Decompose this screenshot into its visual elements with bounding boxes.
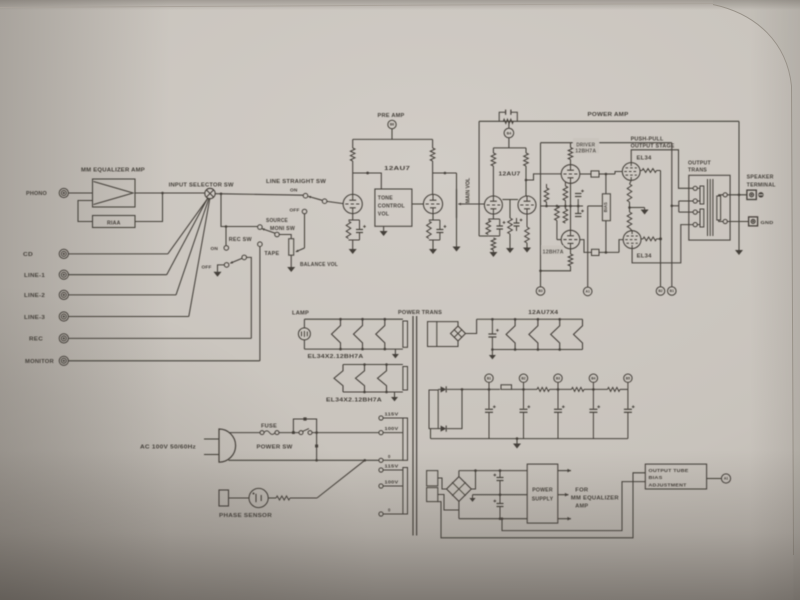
capacitor filter C1 <box>488 389 490 408</box>
node coupling junction <box>366 172 369 175</box>
wire pre amp B+ rail <box>353 138 433 140</box>
capacitor bias Ca <box>577 199 579 206</box>
wire to EL34 lower grid <box>619 240 623 253</box>
svg-text:B6: B6 <box>390 123 394 127</box>
tube V3a 12BH7A <box>561 165 580 184</box>
svg-text:B3: B3 <box>556 376 560 380</box>
wire MONITOR line <box>68 360 260 362</box>
svg-text:LINE-3: LINE-3 <box>24 315 45 321</box>
terminal tap 100V a <box>379 431 383 435</box>
svg-text:REC: REC <box>29 337 43 343</box>
svg-text:DRIVER: DRIVER <box>576 142 595 148</box>
wire rec sw off to ground <box>218 265 225 272</box>
winding heater dc b <box>529 319 538 349</box>
wire B4 to rail <box>508 137 510 148</box>
node row2 taps <box>363 363 366 366</box>
input jack CD <box>59 249 68 258</box>
wire main vol feed down <box>456 173 458 189</box>
resistor R plate V2b <box>524 153 529 166</box>
wire driver bottom B+ return <box>541 266 571 271</box>
input jack LINE-2 <box>59 290 68 299</box>
svg-text:TONE: TONE <box>378 196 393 202</box>
resistor R plate V1a <box>350 148 355 161</box>
wire A1 riser <box>587 206 589 287</box>
svg-text:MAIN VOL: MAIN VOL <box>466 177 472 203</box>
node after switch <box>315 431 318 434</box>
input jack LINE-1 <box>59 270 68 279</box>
winding heater row2 a <box>334 365 343 393</box>
node center tap junction <box>671 205 674 208</box>
node lv right <box>474 469 477 472</box>
wire PHONO to equalizer <box>68 192 92 194</box>
wire rail b2 segment <box>512 388 538 390</box>
resistor R plate V1b <box>430 148 435 161</box>
wire equalizer to selector <box>135 192 205 194</box>
svg-text:TERMINAL: TERMINAL <box>747 183 776 189</box>
capacitor V2b grid <box>516 218 518 223</box>
svg-text:VOL: VOL <box>378 212 390 218</box>
terminal primary 4 <box>693 223 697 227</box>
wire LINE-2 line <box>68 294 176 296</box>
wire heater row1 bottom rail <box>304 348 403 350</box>
resistor bias Rd <box>563 209 568 223</box>
wire driver B+ rail <box>541 142 672 144</box>
ground (grid leak) <box>506 248 514 253</box>
node selector branch <box>220 193 223 196</box>
wire V2b plate <box>525 166 527 196</box>
wire heater row2 top rail <box>343 364 403 366</box>
tube V3b 12BH7A <box>561 230 580 249</box>
wire secondary bottom <box>719 220 723 222</box>
node rec sw branch <box>225 225 228 228</box>
supply terminal B5 (psu) <box>624 374 632 382</box>
resistor rail R b3-b4 <box>572 387 585 391</box>
wire lv bridge top <box>458 471 460 477</box>
svg-text:EL34: EL34 <box>637 155 652 161</box>
wire center taps <box>672 205 679 207</box>
wire V5 plate to transformer <box>632 225 693 263</box>
wire NFB vertical <box>478 121 480 236</box>
node bias tap upper <box>605 173 608 176</box>
page top edge <box>0 4 713 8</box>
svg-text:SOURCE: SOURCE <box>266 218 288 224</box>
ground (V2b cathode) <box>523 248 531 253</box>
resistor screen upper <box>640 170 642 172</box>
wire B3 riser <box>540 143 542 287</box>
ground (heater dc) <box>489 355 496 359</box>
wire secondary top <box>719 195 723 196</box>
resistor R plate V3b <box>568 254 573 266</box>
ground (V1a cathode) <box>349 249 357 254</box>
resistor phase sensor <box>276 496 290 500</box>
wire to gnd terminal <box>727 221 748 223</box>
terminal secondary top <box>723 193 727 197</box>
wire switch to 100V tap <box>312 432 379 434</box>
wire lv bridge bottom <box>458 501 460 518</box>
wire fan LINE-2 <box>176 199 209 295</box>
tube V5 EL34 <box>623 231 641 249</box>
winding heater dc d <box>574 319 583 349</box>
winding block primary 2 <box>403 468 408 515</box>
terminal secondary bottom <box>723 219 727 223</box>
svg-text:CONTROL: CONTROL <box>378 204 406 210</box>
wire resistor to line <box>290 497 317 499</box>
wire hv rail segment 1 <box>447 388 500 390</box>
block phase sensor pickup <box>219 490 229 506</box>
svg-text:TAPE: TAPE <box>264 251 280 257</box>
svg-text:B2: B2 <box>658 289 662 293</box>
capacitor V2a cathode <box>499 219 501 226</box>
supply terminal B4 <box>504 128 514 138</box>
ground (lv mid) <box>469 498 475 502</box>
resistor screen lower <box>641 238 643 240</box>
tube V4 EL34 <box>622 163 640 181</box>
supply terminal B1 (psu) <box>485 374 493 382</box>
terminal primary 1 <box>693 186 697 190</box>
wire to EL34 upper grid <box>615 172 622 175</box>
resistor NFB <box>503 119 513 123</box>
terminal tap 100V b <box>379 484 383 488</box>
wire lv mid rail <box>473 494 528 496</box>
wire NFB to cathode <box>479 235 488 237</box>
svg-text:OUTPUT: OUTPUT <box>688 160 711 166</box>
svg-text:12AU7: 12AU7 <box>384 166 410 172</box>
node neutral junction <box>315 459 318 462</box>
transformer core <box>707 179 709 236</box>
tube V2b 12AU7 phase inverter <box>518 196 536 214</box>
svg-text:ON: ON <box>211 246 219 252</box>
terminal tap 115V b <box>379 468 383 472</box>
ground (main vol) <box>453 247 461 252</box>
wire V3b plate <box>570 249 572 254</box>
block RIAA <box>93 216 136 228</box>
svg-text:FUSE: FUSE <box>261 424 278 430</box>
svg-text:INPUT SELECTOR SW: INPUT SELECTOR SW <box>169 182 234 188</box>
wire EL34 cathode chain <box>630 180 632 184</box>
wire line capacitor leg <box>316 433 318 461</box>
wire V1a cathode <box>352 214 354 220</box>
wire heater row2 bottom rail <box>343 391 403 393</box>
ground (V2a cathode) <box>489 252 497 257</box>
wire rail b5 segment <box>620 388 628 390</box>
resistor V2b cathode <box>525 227 530 243</box>
svg-text:B3: B3 <box>538 289 542 293</box>
svg-text:115V: 115V <box>385 412 399 417</box>
resistor V5 cathode <box>627 212 632 228</box>
ground (EL34 cathodes) <box>641 210 649 215</box>
wire V2a plate <box>492 166 494 196</box>
winding block row2 <box>403 367 408 391</box>
wire fan CD <box>168 198 208 254</box>
svg-text:LAMP: LAMP <box>292 311 309 317</box>
diode D1 <box>438 388 440 390</box>
label DRIVER 12BH7A <box>573 138 599 154</box>
supply terminal A1 (power amp) <box>583 287 592 296</box>
terminal primary 3 <box>693 210 697 214</box>
ground (heater row2) <box>391 397 398 401</box>
wire heater dc bottom rail <box>492 349 582 351</box>
wire NFB top line <box>479 120 739 122</box>
wire V1a plate <box>352 161 354 195</box>
input jack PHONO <box>59 188 68 197</box>
svg-text:MM EQUALIZER AMP: MM EQUALIZER AMP <box>81 168 145 174</box>
wire rail to R2 <box>432 139 434 148</box>
svg-text:B4: B4 <box>507 131 512 135</box>
resistor bias Rc <box>564 182 566 186</box>
block TONE CONTROL VOL <box>375 189 412 226</box>
wire lamp stubs <box>303 319 305 328</box>
wire cathode to ground <box>630 207 645 209</box>
rotary switch INPUT SELECTOR SW <box>205 188 215 198</box>
node plate junction <box>525 179 528 182</box>
svg-text:TRANS: TRANS <box>688 168 707 174</box>
wire CD line <box>68 253 167 255</box>
coupling capacitor upper <box>580 173 591 175</box>
wire ground stub <box>516 439 518 444</box>
svg-text:PHONO: PHONO <box>26 191 47 197</box>
capacitor bias Cb <box>577 206 579 213</box>
potentiometer MAIN VOL <box>456 189 458 218</box>
winding heater row1 c <box>376 319 385 349</box>
winding heater row2 b <box>356 365 365 393</box>
page edge shading right <box>713 0 800 600</box>
svg-text:B5: B5 <box>626 376 630 380</box>
terminal speaker GND <box>749 217 758 226</box>
resistor R plate V2a <box>491 153 496 166</box>
wire B1 riser <box>671 143 673 287</box>
svg-text:B1: B1 <box>487 376 491 380</box>
ground (V1b cathode) <box>429 249 437 254</box>
svg-text:BIAS: BIAS <box>603 202 608 212</box>
potentiometer BIAS <box>605 174 607 194</box>
wire LINE-3 line <box>68 316 188 318</box>
node switch junction <box>292 431 295 434</box>
ground (balance vol) <box>287 267 295 272</box>
wire heater row1 top rail <box>304 318 403 320</box>
wire rail b4 segment <box>584 388 608 390</box>
block POWER SUPPLY <box>527 464 558 523</box>
resistor rail R b4-b5 <box>608 387 621 391</box>
svg-text:EL34X2.12BH7A: EL34X2.12BH7A <box>308 354 364 360</box>
wire cathode mid <box>629 202 631 212</box>
svg-text:12AU7: 12AU7 <box>499 172 521 178</box>
wire V1b plate <box>432 161 434 195</box>
wire rail to R5 <box>570 143 572 148</box>
capacitor filter C5 <box>627 389 629 408</box>
diode D2 <box>438 428 440 430</box>
wire lv top rail <box>459 470 527 472</box>
node bias feed tap <box>501 517 504 520</box>
wire branch to rec sw on <box>225 227 227 246</box>
svg-text:B4: B4 <box>591 376 595 380</box>
wire V4 plate to transformer <box>631 150 693 189</box>
winding block LV1 <box>427 471 438 486</box>
supply terminal B2 <box>656 287 665 296</box>
winding block primary 1 <box>403 418 408 460</box>
wiper arrow balance vol <box>296 248 305 252</box>
ground (tone control) <box>380 231 388 236</box>
node NFB takeoff <box>738 194 741 197</box>
svg-text:12BH7A: 12BH7A <box>543 249 564 255</box>
wire bridge to rail <box>466 319 477 333</box>
node main vol feed <box>444 172 447 175</box>
supply terminal A1 (psu) <box>721 474 730 483</box>
svg-text:POWER TRANS: POWER TRANS <box>398 310 442 316</box>
arrow output 3 <box>558 518 571 520</box>
supply terminal B3 (psu) <box>554 374 562 382</box>
wire RIAA feedback right <box>135 193 163 222</box>
winding heater row1 b <box>354 319 363 349</box>
wire rail to R1 <box>352 139 354 148</box>
block OUTPUT TUBE BIAS ADJUSTMENT <box>645 464 706 489</box>
wire line straight sw to tube <box>327 201 343 203</box>
svg-text:POWER AMP: POWER AMP <box>588 112 629 118</box>
winding block heater dc <box>428 322 437 347</box>
wire to ground <box>492 250 494 252</box>
svg-text:OUTPUT STAGE: OUTPUT STAGE <box>631 144 675 150</box>
resistor V4 cathode <box>627 184 632 202</box>
winding heater dc a <box>506 319 515 349</box>
svg-text:REC SW: REC SW <box>229 237 252 243</box>
wire balance pot to ground <box>290 255 292 267</box>
resistor V2a cathode lower <box>491 238 496 250</box>
wire driver cathodes link <box>570 183 572 230</box>
svg-text:SPEAKER: SPEAKER <box>747 175 774 181</box>
ground (speaker return) <box>735 250 743 255</box>
supply terminal B3 <box>536 287 545 296</box>
node phase sensor tap <box>364 459 367 462</box>
wire sensor to resistor <box>268 497 276 499</box>
wire row1 ground stub <box>394 349 396 354</box>
wire V3b grid <box>557 239 561 241</box>
wire screen bus <box>660 171 662 287</box>
svg-text:PUSH-PULL: PUSH-PULL <box>631 137 664 143</box>
winding heater row1 a <box>332 319 341 349</box>
wire ac hot <box>229 432 261 434</box>
node d2 junction <box>461 388 464 391</box>
wire NFB line to B4 <box>508 121 510 128</box>
resistor bias Rb <box>555 206 560 221</box>
tube V2a 12AU7 pre driver <box>484 196 502 214</box>
svg-text:EL34: EL34 <box>637 254 652 260</box>
svg-text:B1: B1 <box>670 289 674 293</box>
wire moni sw to balance pot <box>279 235 291 239</box>
potentiometer BALANCE VOL <box>289 239 294 256</box>
winding block row1 <box>403 321 408 347</box>
tube V1a 12AU7 <box>343 194 362 213</box>
capacitor filter C2 <box>523 389 525 408</box>
wire grid leak drop <box>509 200 511 219</box>
wire lv winding2 link <box>438 495 459 511</box>
wire switch bypass <box>293 419 316 433</box>
ground (b+ supply) <box>513 444 521 449</box>
wire bias feed inner <box>502 482 645 531</box>
ground (rec sw) <box>214 272 222 277</box>
winding heater row2 c <box>378 365 387 393</box>
wire rec sw pivot to REC line <box>247 257 252 338</box>
terminal tap 0 b <box>379 512 383 516</box>
coupling capacitor lower <box>580 240 592 253</box>
wire lv bridge right <box>471 471 475 489</box>
wire heater dc rail <box>477 318 583 320</box>
svg-text:OFF: OFF <box>290 207 300 213</box>
wire phase inverter plate out <box>526 174 561 180</box>
wire bias feed outer <box>438 473 646 538</box>
svg-text:B2: B2 <box>521 376 525 380</box>
wire pickup to sensor <box>229 497 250 499</box>
node row1 taps <box>339 318 342 321</box>
resistor V2b grid leak <box>508 218 513 234</box>
svg-text:CD: CD <box>23 252 33 258</box>
wire V3a plate <box>570 160 572 165</box>
wire bias box to A1 <box>707 478 722 480</box>
wire off contact to balance wiper <box>304 214 306 248</box>
terminal tap 0 a <box>379 458 383 462</box>
capacitor filter C4 <box>592 389 594 408</box>
wire tone control ground <box>383 226 385 231</box>
capacitor filter C3 <box>557 389 559 408</box>
svg-text:ON: ON <box>290 188 298 194</box>
resistor V2a cathode <box>486 220 491 235</box>
winding heater dc c <box>551 319 560 349</box>
wire fan LINE-1 <box>167 198 208 274</box>
svg-text:GND: GND <box>761 220 775 225</box>
choke filter <box>501 385 512 390</box>
wire grid leak to ground <box>509 234 511 248</box>
node screen junction <box>659 237 662 240</box>
node bus taps <box>545 205 548 208</box>
wire rail to R3 <box>492 148 494 153</box>
sensor PHASE SENSOR <box>249 488 268 507</box>
wire lv winding1 link <box>438 478 447 489</box>
supply terminal B1 <box>668 287 677 296</box>
wire phase sensor diagonal <box>317 460 365 498</box>
winding primary upper <box>700 186 704 204</box>
wire bottom rail to winding <box>430 429 432 439</box>
terminal primary 2 <box>693 199 697 203</box>
svg-text:PRE AMP: PRE AMP <box>378 113 405 119</box>
resistor bias Ra <box>546 184 548 188</box>
node lv c2 tap <box>499 517 502 520</box>
wire b+ bottom rail <box>431 438 628 440</box>
node heater dc taps <box>514 318 517 321</box>
winding block HV <box>429 390 438 429</box>
svg-text:12AU7X4: 12AU7X4 <box>528 310 558 316</box>
wire main vol to ground <box>456 218 458 247</box>
wire V2a to V2b coupling <box>502 199 518 201</box>
svg-text:MONITOR: MONITOR <box>25 359 54 365</box>
wire B6 to rail <box>391 129 393 140</box>
svg-text:OFF: OFF <box>202 265 212 271</box>
wire V1b cathode to ground <box>432 240 434 249</box>
wire fuse to switch <box>279 432 299 434</box>
ac plug <box>219 429 236 462</box>
wire V1b out to main vol <box>433 172 457 174</box>
lamp pilot <box>298 328 310 340</box>
capacitor lv C1 <box>499 471 501 477</box>
svg-text:LINE-1: LINE-1 <box>24 273 45 279</box>
supply terminal B2 (psu) <box>519 374 527 382</box>
node rail taps <box>488 388 491 391</box>
resistor R plate V3a <box>568 148 573 160</box>
svg-text:100V: 100V <box>385 426 399 431</box>
terminal speaker + <box>747 190 756 199</box>
svg-text:BALANCE VOL: BALANCE VOL <box>300 262 338 268</box>
capacitor lv C2 <box>499 495 501 503</box>
wire V1b cathode <box>432 214 434 220</box>
wire fan LINE-3 <box>189 199 210 317</box>
wire LINE-1 line <box>68 274 166 276</box>
